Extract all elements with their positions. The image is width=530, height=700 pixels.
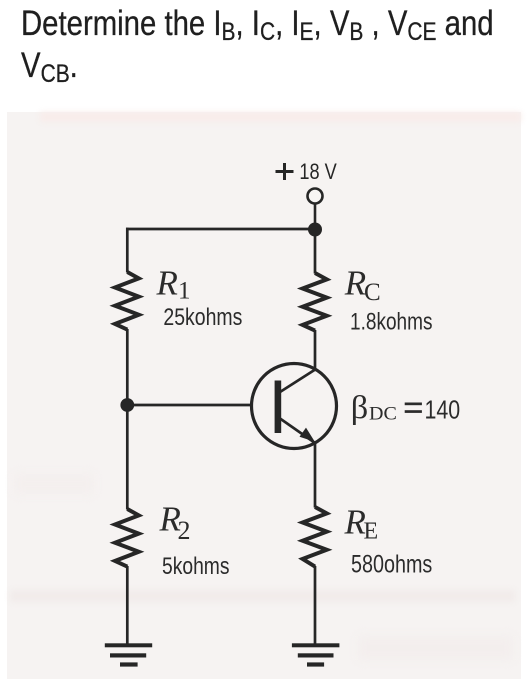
wire: top node down to RC bbox=[314, 229, 317, 274]
resistor RC zigzag bbox=[303, 273, 327, 331]
wire: RE bottom to right ground bbox=[314, 566, 317, 645]
svg-text:C: C bbox=[364, 279, 381, 306]
ground (right) bbox=[292, 643, 340, 666]
svg-text:1: 1 bbox=[178, 278, 191, 305]
resistor RE zigzag bbox=[303, 507, 327, 567]
scanned paper background bbox=[7, 112, 521, 679]
svg-text:β: β bbox=[351, 390, 369, 426]
svg-text:R: R bbox=[156, 264, 178, 303]
wire: emitter down to RE bbox=[314, 442, 317, 508]
label +18 V bbox=[276, 163, 294, 180]
+18V supply terminal circle bbox=[308, 189, 323, 204]
wire: base horizontal to transistor bbox=[127, 404, 252, 407]
wire: R1 bottom to R2 top (through base node) bbox=[126, 329, 129, 510]
transistor collector stroke bbox=[280, 369, 316, 392]
svg-text:25kohms: 25kohms bbox=[163, 304, 242, 331]
resistor R1 zigzag bbox=[115, 272, 139, 330]
node: top junction dot bbox=[308, 223, 322, 237]
ground (left) bbox=[105, 643, 152, 666]
node: base junction dot bbox=[120, 398, 134, 412]
wire: R2 bottom to left ground bbox=[126, 566, 129, 645]
svg-text:1.8kohms: 1.8kohms bbox=[350, 309, 433, 336]
svg-text:140: 140 bbox=[425, 394, 461, 424]
svg-text:580ohms: 580ohms bbox=[351, 551, 432, 579]
wire: terminal to top node bbox=[314, 204, 317, 230]
transistor emitter stroke with arrow bbox=[280, 419, 316, 444]
svg-text:2: 2 bbox=[178, 516, 191, 545]
svg-text:18 V: 18 V bbox=[299, 159, 337, 184]
wire: RC bottom to transistor collector bbox=[314, 330, 317, 370]
wire: top horizontal rail bbox=[126, 228, 315, 231]
transistor Q1 circle bbox=[252, 364, 337, 449]
svg-text:5kohms: 5kohms bbox=[162, 553, 230, 580]
wire: left vertical down to R1 bbox=[126, 228, 129, 273]
resistor R2 zigzag bbox=[115, 509, 139, 567]
transistor base bar bbox=[275, 381, 282, 434]
title text bbox=[21, 3, 530, 87]
svg-text:DC: DC bbox=[369, 405, 397, 425]
svg-text:R: R bbox=[344, 264, 366, 303]
svg-text:E: E bbox=[364, 519, 379, 545]
